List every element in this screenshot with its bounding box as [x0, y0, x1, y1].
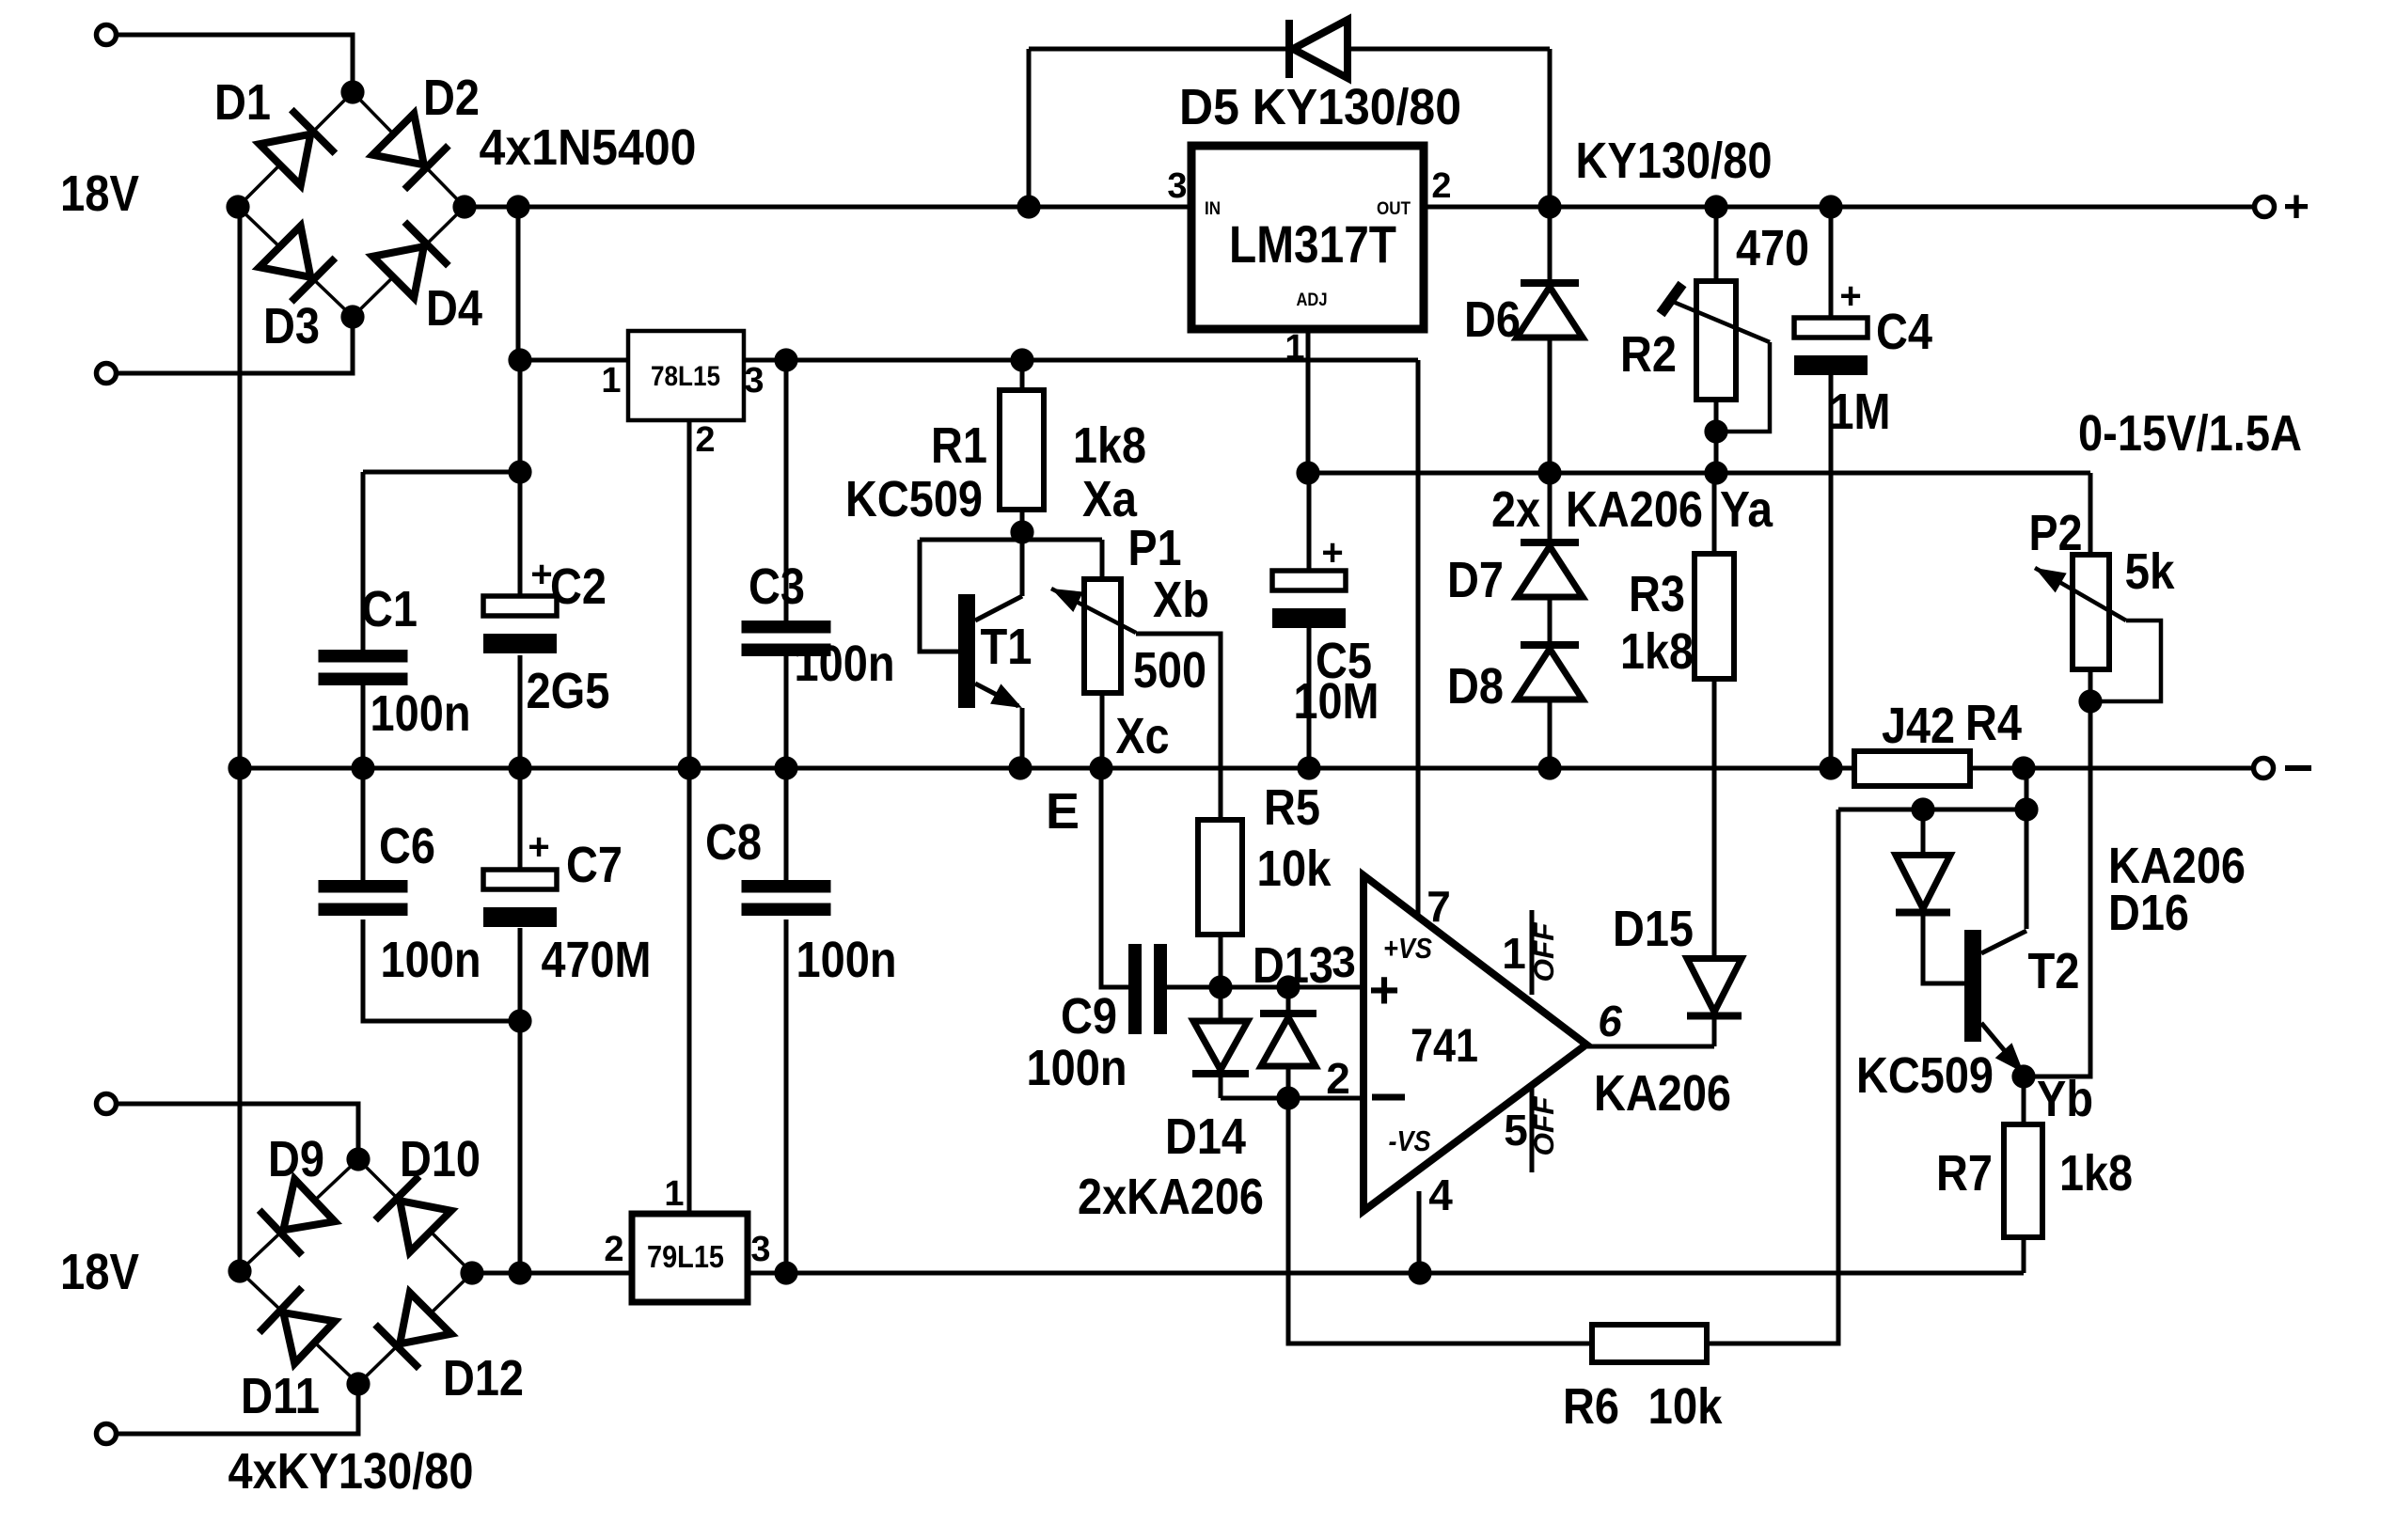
svg-text:LM317T: LM317T — [1229, 214, 1396, 274]
pin label OUT — [1377, 199, 1411, 219]
wire C5 bottom lead — [1307, 626, 1312, 768]
svg-text:2G5: 2G5 — [527, 663, 610, 719]
wire from lower 18V terminal to bridge bottom node — [118, 319, 353, 373]
diode D5 — [1289, 20, 1348, 78]
label D13 — [1253, 937, 1333, 994]
wire +15V rail (78L15 out to 741 pin7 corner) — [743, 358, 1418, 363]
label D9 — [268, 1131, 324, 1187]
wire 78L15 input — [520, 358, 629, 363]
diode D10 — [375, 1176, 451, 1252]
wire T1 base loop — [920, 540, 958, 652]
svg-text:470: 470 — [1736, 220, 1809, 276]
wire bridge2 edge L-B — [240, 1271, 358, 1384]
potentiometer P1 body — [1084, 579, 1121, 693]
node: D14 bottom junction — [1276, 1086, 1300, 1109]
svg-text:Xa: Xa — [1082, 471, 1138, 527]
label KC509 (T2) — [1856, 1047, 1994, 1104]
wire bridge1 edge L-T — [238, 92, 353, 207]
svg-text:IN: IN — [1205, 199, 1221, 219]
label Xa — [1082, 471, 1138, 527]
label D15 — [1613, 901, 1694, 957]
svg-text:P1: P1 — [1128, 520, 1182, 576]
label Xb — [1153, 572, 1209, 628]
diode D1 — [260, 110, 336, 186]
node Xa — [1010, 520, 1033, 543]
label D2 — [423, 70, 480, 126]
wire from terminal to bridge2 top node — [118, 1104, 358, 1159]
label 100n (C6) — [381, 932, 481, 988]
wire C6 top lead — [361, 768, 366, 880]
svg-text:100n: 100n — [795, 636, 895, 692]
label R7 — [1936, 1145, 1993, 1202]
diode D14 — [1192, 1021, 1249, 1074]
svg-text:C1: C1 — [361, 581, 418, 637]
wire T1 emitter to minus rail — [1020, 708, 1025, 768]
node: minus rail T1 emitter (E) — [1008, 756, 1032, 779]
wire bridge2 edge T-R — [358, 1159, 472, 1273]
node: bridge1 bottom — [340, 305, 364, 328]
svg-text:D13: D13 — [1253, 937, 1333, 994]
wire C8 bottom lead — [784, 919, 789, 1273]
node: -18V rail 741 pin4 — [1408, 1261, 1431, 1284]
label 79L15 — [647, 1239, 724, 1274]
label + of C7 — [528, 826, 549, 868]
label KA206 (D16) — [2108, 838, 2246, 894]
pin number 6 (741 out) — [1598, 997, 1622, 1045]
svg-text:D2: D2 — [423, 70, 480, 126]
wire minus rail left of R4 — [240, 766, 1854, 771]
wire C9 to 741 +input — [1167, 985, 1362, 990]
node: minus rail D8 — [1537, 756, 1561, 779]
svg-text:+: + — [1839, 275, 1861, 317]
svg-text:0-15V/1.5A: 0-15V/1.5A — [2078, 405, 2302, 462]
label 100n (C3) — [795, 636, 895, 692]
wire D5 top right segment — [1348, 47, 1550, 52]
wire C5 top lead — [1307, 473, 1312, 571]
IC 79L15 box — [632, 1214, 748, 1302]
label KY130/80 (D6 group) — [1576, 133, 1773, 189]
wire Xc to C9 — [1101, 768, 1128, 987]
svg-text:C3: C3 — [749, 558, 805, 615]
capacitor C3 (100n) — [742, 621, 831, 656]
node: D13 top junction — [1276, 975, 1300, 998]
wire Yb to P2 bottom — [2024, 701, 2090, 1076]
wire left AC vertical x255 — [238, 207, 243, 1271]
wire Ya rail corner to P2 top — [2089, 473, 2093, 555]
wire C1 branch horizontal — [363, 470, 520, 475]
wire minus rail right of R4 — [1970, 766, 2252, 771]
resistor R6 — [1592, 1325, 1707, 1362]
svg-text:KY130/80: KY130/80 — [1576, 133, 1773, 189]
wire R2 top lead — [1714, 207, 1719, 281]
svg-text:KA206: KA206 — [1566, 481, 1703, 538]
wire Xb to R5 top — [1136, 634, 1221, 820]
label +VS — [1383, 932, 1432, 965]
node: minus rail C1 — [351, 756, 374, 779]
node: -18V rail x553 — [508, 1261, 531, 1284]
wire T2 branch from minus rail — [2025, 768, 2029, 929]
label + of C5 — [1321, 532, 1343, 574]
node: bridge1 right — [452, 195, 476, 218]
svg-text:1: 1 — [601, 361, 621, 401]
label R6 — [1563, 1378, 1619, 1435]
label LM317T — [1229, 214, 1396, 274]
svg-text:10k: 10k — [1648, 1378, 1724, 1435]
terminal: + output — [2255, 197, 2275, 217]
potentiometer P2 wiper — [2035, 568, 2126, 621]
transistor T1 emitter arm — [975, 684, 1022, 708]
svg-text:R5: R5 — [1264, 779, 1320, 836]
node: bridge2 right — [460, 1261, 483, 1284]
pin 1 offset mark line — [1530, 910, 1535, 995]
diode D8 — [1517, 645, 1583, 699]
svg-text:1k8: 1k8 — [1073, 417, 1146, 474]
terminal: 18V AC input bottom phase — [97, 364, 117, 384]
svg-text:D11: D11 — [241, 1368, 320, 1424]
label C4 — [1876, 304, 1932, 360]
svg-text:1M: 1M — [1830, 384, 1891, 440]
wire C4 top lead — [1829, 207, 1834, 318]
label D3 — [263, 298, 320, 354]
label E node — [1046, 783, 1080, 840]
node: OUT junction with D5/D6 — [1537, 195, 1561, 218]
node: T2 top D16 — [1911, 797, 1934, 821]
node: P2 bottom junction — [2078, 689, 2102, 713]
label J42 — [1882, 698, 1955, 754]
trimmer R2 wiper line — [1671, 301, 1770, 342]
wire D6 to D7 — [1548, 338, 1553, 473]
label + of C2 — [530, 554, 552, 595]
svg-text:5: 5 — [1504, 1106, 1528, 1155]
label KA206 (D15) — [1594, 1065, 1731, 1122]
transistor T1 collector arm — [975, 596, 1022, 621]
IC 78L15 box — [628, 331, 744, 420]
svg-text:D15: D15 — [1613, 901, 1694, 957]
svg-text:18V: 18V — [60, 165, 139, 222]
label 18V (lower transformer input) — [60, 1244, 139, 1300]
svg-text:D10: D10 — [400, 1131, 481, 1187]
svg-text:OFF: OFF — [1529, 1096, 1560, 1156]
svg-text:2: 2 — [1326, 1054, 1350, 1103]
pin 5 offset mark line — [1530, 1088, 1535, 1172]
pin number 3 (741 +in) — [1332, 937, 1356, 986]
pin number 2 (LM317 OUT) — [1431, 166, 1451, 206]
svg-text:100n: 100n — [381, 932, 481, 988]
diode D15 — [1687, 959, 1742, 1016]
label 1k8 (R3) — [1620, 623, 1694, 680]
label 2xKA206 — [1078, 1169, 1264, 1225]
label R5 — [1264, 779, 1320, 836]
diode D13 — [1260, 1014, 1316, 1066]
svg-text:470M: 470M — [542, 932, 652, 988]
label C7 — [566, 837, 623, 893]
pin number 3 (78L15 out) — [744, 361, 764, 401]
label R1 — [931, 417, 987, 474]
label D4 — [426, 280, 482, 337]
node: C1 branch junction — [508, 460, 531, 483]
wire D5 left vertical — [1027, 49, 1032, 207]
svg-text:Xb: Xb — [1153, 572, 1209, 628]
svg-text:10M: 10M — [1294, 673, 1379, 730]
wire x553 from rail2 to C2 — [518, 360, 523, 596]
svg-text:R4: R4 — [1965, 695, 2022, 751]
wire D16 top lead — [1921, 809, 1926, 857]
svg-text:D3: D3 — [263, 298, 320, 354]
wire D7 to D8 — [1548, 598, 1553, 648]
pin number 3 (79L15) — [750, 1230, 770, 1269]
wire D14 top lead — [1219, 987, 1223, 1019]
label C6 — [379, 818, 435, 874]
terminal: 18V AC input (lower) phase A — [97, 1094, 117, 1114]
label KC509 (T1) — [845, 471, 983, 527]
diode D6 — [1517, 283, 1583, 338]
svg-text:T2: T2 — [2028, 943, 2080, 999]
wire -18V rail from 79L15 pin3 — [748, 1271, 2024, 1276]
svg-text:D12: D12 — [443, 1350, 524, 1406]
resistor R7 — [2004, 1124, 2042, 1237]
label Ya — [1720, 481, 1773, 538]
label P1 — [1128, 520, 1182, 576]
pin label IN — [1205, 199, 1221, 219]
label R3 — [1629, 566, 1685, 622]
svg-text:741: 741 — [1411, 1019, 1478, 1072]
svg-text:J42: J42 — [1882, 698, 1955, 754]
svg-text:C9: C9 — [1061, 988, 1117, 1045]
wire R1 top lead — [1020, 360, 1025, 390]
svg-text:500: 500 — [1133, 642, 1206, 699]
wire bridge2 edge B-R — [358, 1273, 472, 1384]
wire R1 bottom to T1 collector — [1020, 510, 1025, 596]
svg-text:2xKA206: 2xKA206 — [1078, 1169, 1264, 1225]
potentiometer P1 wiper — [1051, 589, 1136, 633]
node: + rail C4 — [1819, 195, 1842, 218]
node: Ya rail D7 junction — [1537, 461, 1561, 484]
svg-text:+: + — [528, 826, 549, 868]
svg-text:2: 2 — [695, 420, 715, 460]
pin number 5 (741 offset) — [1504, 1106, 1528, 1155]
transistor T1 base bar — [958, 594, 975, 708]
label 2x — [1491, 481, 1540, 538]
wire R6 right to T2 net — [1707, 809, 1838, 1344]
svg-text:C7: C7 — [566, 837, 623, 893]
svg-text:3: 3 — [744, 361, 764, 401]
trimmer R2 wiper bracket — [1716, 342, 1770, 432]
wire D13 top lead — [1286, 987, 1291, 1014]
label C8 — [705, 814, 762, 871]
node: minus rail 78L15 gnd — [677, 756, 701, 779]
diode D2 — [372, 114, 449, 190]
wire C3 top lead — [784, 360, 789, 621]
svg-text:D8: D8 — [1447, 658, 1504, 715]
svg-text:KC509: KC509 — [845, 471, 983, 527]
wire bridge2 edge T-L — [240, 1159, 358, 1271]
label D1 — [214, 74, 271, 131]
wire D16 to T2 base — [1923, 914, 1964, 983]
svg-text:1k8: 1k8 — [1620, 623, 1694, 680]
label D10 — [400, 1131, 481, 1187]
label C9 — [1061, 988, 1117, 1045]
node: minus rail C3/C8 — [774, 756, 797, 779]
label D11 — [241, 1368, 320, 1424]
svg-text:3: 3 — [750, 1230, 770, 1269]
pin number 1 (79L15) — [664, 1174, 684, 1214]
label 1k8 (R7) — [2059, 1145, 2133, 1202]
wire P1 top lead — [1100, 540, 1105, 579]
capacitor C2 (electrolytic) — [483, 596, 557, 653]
resistor R3 — [1695, 554, 1734, 679]
wire P2 bottom lead — [2089, 669, 2093, 701]
pin number 2 (741 -in) — [1326, 1054, 1350, 1103]
label 100n (C8) — [796, 932, 897, 988]
wire bridge1 edge T-R — [353, 92, 465, 207]
svg-text:C6: C6 — [379, 818, 435, 874]
resistor R4 (J42) in minus rail — [1854, 751, 1970, 786]
wire from top 18V terminal to bridge top node — [118, 35, 353, 92]
wire D14 bottom lead — [1219, 1073, 1223, 1098]
label 10M — [1294, 673, 1379, 730]
svg-text:R3: R3 — [1629, 566, 1685, 622]
svg-text:R6: R6 — [1563, 1378, 1619, 1435]
wire C4 bottom lead — [1829, 373, 1834, 768]
svg-text:-VS: -VS — [1389, 1124, 1431, 1157]
pin number 4 (741 -VS) — [1428, 1171, 1453, 1219]
wire P1 bottom lead — [1100, 693, 1105, 768]
wire C6 bottom lead — [363, 919, 520, 1021]
IC U1 LM317T box — [1191, 146, 1424, 329]
svg-text:+: + — [1321, 532, 1343, 574]
svg-text:78L15: 78L15 — [651, 361, 720, 392]
label 500 (P1) — [1133, 642, 1206, 699]
pin number 2 (79L15) — [604, 1230, 623, 1269]
label + of C4 — [1839, 275, 1861, 317]
wire +raw rail from bridge1 to LM317 IN — [465, 205, 1191, 210]
label D7 — [1447, 552, 1504, 608]
svg-text:R2: R2 — [1620, 326, 1677, 383]
transistor T2 emitter arm — [1981, 1023, 2024, 1073]
wire LM317 OUT to + terminal — [1424, 205, 2253, 210]
svg-text:4xKY130/80: 4xKY130/80 — [229, 1443, 474, 1500]
diode D9 — [260, 1179, 335, 1255]
svg-text:2: 2 — [1431, 166, 1451, 206]
label OFF (pin1) — [1529, 922, 1560, 982]
svg-text:+: + — [1369, 960, 1400, 1019]
svg-text:2: 2 — [604, 1230, 623, 1269]
label C1 — [361, 581, 418, 637]
wire bridge1 edge L-B — [238, 207, 353, 317]
pin number 1 (78L15 in) — [601, 361, 621, 401]
svg-text:1: 1 — [1502, 929, 1526, 978]
potentiometer P2 body — [2073, 555, 2109, 669]
wire D15 to 741 output — [1712, 1017, 1717, 1046]
node: x553 rail2 junction — [508, 348, 531, 371]
label 1M — [1830, 384, 1891, 440]
wire D7 top lead — [1548, 473, 1553, 545]
pin number 2 (78L15 gnd) — [695, 420, 715, 460]
svg-text:D14: D14 — [1165, 1108, 1246, 1165]
capacitor C8 (100n) — [742, 880, 831, 916]
label 470M — [542, 932, 652, 988]
node: R2 wiper junction — [1704, 419, 1727, 443]
wire R7 bottom to -18V rail — [2022, 1237, 2026, 1273]
svg-text:1: 1 — [664, 1174, 684, 1214]
wire C7 bottom to bottom rail — [518, 928, 523, 1273]
label 470 (R2) — [1736, 220, 1809, 276]
svg-text:P2: P2 — [2029, 505, 2083, 561]
pin number 3 (LM317 IN) — [1167, 166, 1187, 206]
wire R3 top lead — [1712, 473, 1717, 554]
node: Ya rail R2/R3 — [1704, 461, 1727, 484]
pin number 7 (741 +VS) — [1427, 882, 1451, 931]
wire bridge1 edge B-R — [353, 207, 465, 317]
wire Ya rail — [1308, 471, 2090, 476]
label D8 — [1447, 658, 1504, 715]
resistor R5 — [1198, 820, 1242, 935]
svg-text:C8: C8 — [705, 814, 762, 871]
label - output sign — [2285, 765, 2311, 771]
capacitor C6 (100n) — [319, 880, 408, 916]
svg-text:1k8: 1k8 — [2059, 1145, 2133, 1202]
label 2G5 — [527, 663, 610, 719]
node: raw+ at x551 — [506, 195, 529, 218]
svg-text:E: E — [1046, 783, 1080, 840]
wire bridge2 to 79L15 pin2 — [472, 1271, 632, 1276]
wire Xa horizontal — [920, 538, 1102, 542]
svg-text:6: 6 — [1598, 997, 1622, 1045]
svg-text:10k: 10k — [1257, 841, 1332, 897]
transistor T2 collector arm — [1981, 931, 2026, 953]
svg-text:KC509: KC509 — [1856, 1047, 1994, 1104]
node: bridge2 left — [228, 1259, 251, 1282]
label 5k (P2) — [2125, 543, 2176, 600]
capacitor C1 (100n) — [319, 650, 408, 685]
label C3 — [749, 558, 805, 615]
svg-text:OUT: OUT — [1377, 199, 1411, 219]
wire C7 top lead — [518, 768, 523, 870]
op-amp U2 741 triangle — [1364, 875, 1586, 1211]
svg-text:3: 3 — [1332, 937, 1356, 986]
node: + rail R2 — [1704, 195, 1727, 218]
wire D13 bottom lead — [1286, 1066, 1291, 1098]
wire 741 pin6 output — [1587, 1045, 1714, 1049]
wire C2 bottom to minus rail — [518, 655, 523, 768]
wire C1 top lead — [361, 472, 366, 650]
svg-text:KA206: KA206 — [1594, 1065, 1731, 1122]
wire D5 top left segment — [1029, 47, 1292, 52]
svg-text:100n: 100n — [796, 932, 897, 988]
wire C1 bottom lead — [361, 685, 366, 768]
svg-text:Ya: Ya — [1720, 481, 1773, 538]
trimmer R2 body — [1696, 281, 1736, 400]
svg-text:4: 4 — [1428, 1171, 1453, 1219]
label -VS — [1389, 1124, 1431, 1157]
label 4x1N5400 — [480, 119, 697, 176]
wire 741 pin7 vertical — [1416, 360, 1421, 919]
label D6 — [1464, 291, 1521, 348]
node: bridge2 top — [346, 1147, 370, 1171]
label D14 — [1165, 1108, 1246, 1165]
capacitor C7 (electrolytic) — [483, 870, 557, 927]
svg-text:D16: D16 — [2108, 885, 2189, 941]
label R4 — [1965, 695, 2022, 751]
svg-text:T1: T1 — [981, 619, 1032, 675]
svg-text:5k: 5k — [2125, 543, 2176, 600]
svg-text:C2: C2 — [550, 558, 607, 615]
node: ADJ/C5 junction — [1296, 461, 1319, 484]
wire D14 junction down to R6 — [1288, 1098, 1592, 1344]
label P2 — [2029, 505, 2083, 561]
svg-text:Xc: Xc — [1116, 708, 1170, 764]
svg-text:Yb: Yb — [2037, 1071, 2093, 1127]
